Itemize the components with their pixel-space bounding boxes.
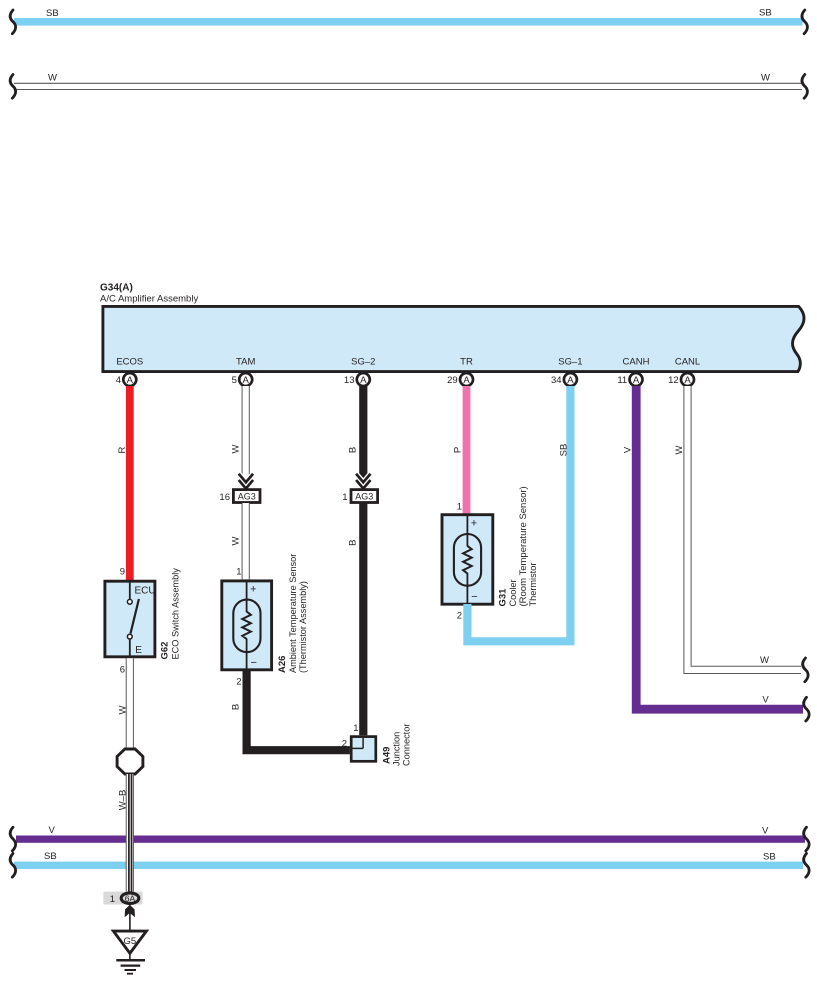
- svg-text:A: A: [463, 375, 470, 386]
- svg-text:B: B: [348, 540, 359, 546]
- ground symbol: [116, 953, 145, 973]
- wire SB top bus: [14, 8, 803, 26]
- svg-text:1: 1: [457, 502, 462, 513]
- svg-text:+: +: [471, 517, 477, 529]
- ground lead wire: [129, 905, 131, 930]
- wire W-B (octagon to ground connector 6A, crosses over buses): [129, 774, 132, 892]
- svg-text:A: A: [360, 375, 367, 386]
- connector pin 12 (A) CANL: [668, 373, 694, 386]
- svg-text:2: 2: [236, 677, 241, 688]
- wire W (AG3 to A26 pin 1): [231, 503, 246, 579]
- svg-text:G31: G31: [498, 588, 509, 607]
- junction connector AG3 (pin 16): [219, 490, 260, 503]
- svg-text:W: W: [760, 655, 769, 666]
- junction connector AG3 (pin 1): [342, 490, 377, 503]
- wire W (TAM pin 5 down to AG3): [231, 386, 246, 476]
- break symbol left (SB bottom bus): [10, 853, 15, 877]
- svg-text:5: 5: [232, 375, 237, 386]
- wire V (CANH pin 11 to right edge): [623, 386, 804, 709]
- svg-text:A: A: [243, 375, 250, 386]
- svg-text:9: 9: [120, 567, 125, 578]
- svg-text:W: W: [761, 73, 770, 84]
- svg-text:W: W: [118, 705, 129, 714]
- svg-text:W: W: [231, 536, 242, 545]
- svg-text:TR: TR: [460, 357, 473, 368]
- break symbol right (wire V CANH): [804, 697, 809, 721]
- svg-text:ECOS: ECOS: [116, 357, 143, 368]
- svg-text:A/C Amplifier Assembly: A/C Amplifier Assembly: [100, 294, 198, 305]
- svg-text:V: V: [762, 695, 769, 706]
- connector pin 13 (A) SG-2: [344, 373, 370, 386]
- svg-text:A: A: [633, 375, 640, 386]
- wire B (AG3 to A49 pin 1): [348, 503, 364, 735]
- wire P (TR pin 29 to G31 pin 1): [453, 386, 471, 514]
- svg-text:W: W: [231, 444, 242, 453]
- svg-text:SB: SB: [559, 444, 570, 457]
- svg-text:16: 16: [219, 492, 230, 503]
- junction connector box A49: [351, 737, 376, 762]
- svg-text:TAM: TAM: [236, 357, 255, 368]
- ground point triangle G5: [113, 931, 146, 953]
- svg-text:1: 1: [342, 492, 347, 503]
- svg-text:R: R: [117, 446, 128, 453]
- svg-text:Ambient Temperature Sensor: Ambient Temperature Sensor: [288, 554, 298, 673]
- connector pin 34 (A) SG-1: [551, 373, 577, 386]
- ECO switch assembly box G62: [105, 581, 155, 657]
- svg-text:A: A: [127, 375, 134, 386]
- svg-text:SB: SB: [44, 851, 57, 862]
- svg-text:SB: SB: [759, 8, 772, 19]
- svg-text:A26: A26: [277, 656, 288, 673]
- wire W top bus: [14, 73, 802, 90]
- break symbol left (W top bus): [10, 75, 15, 99]
- ambient temperature sensor box A26: [222, 581, 272, 670]
- svg-text:ECO Switch Assembly: ECO Switch Assembly: [171, 568, 181, 660]
- svg-text:1: 1: [353, 723, 358, 734]
- svg-text:SG–1: SG–1: [558, 357, 582, 368]
- break symbol right (SB bottom bus): [804, 853, 809, 877]
- svg-text:B: B: [231, 704, 242, 710]
- svg-text:AG3: AG3: [238, 492, 256, 502]
- switch symbol inside G62: [127, 580, 138, 658]
- svg-text:G34(A): G34(A): [100, 283, 133, 294]
- svg-text:1: 1: [110, 894, 115, 905]
- svg-text:−: −: [251, 657, 257, 669]
- connector pin 5 (A) TAM: [232, 373, 253, 386]
- svg-text:SG–2: SG–2: [351, 357, 375, 368]
- svg-text:V: V: [623, 446, 634, 453]
- svg-text:P: P: [453, 447, 464, 453]
- svg-text:+: +: [250, 584, 256, 596]
- svg-text:W: W: [48, 73, 57, 84]
- svg-text:CANL: CANL: [675, 357, 700, 368]
- thermistor symbol inside A26: [233, 580, 260, 671]
- svg-text:V: V: [762, 826, 769, 837]
- svg-text:CANH: CANH: [623, 357, 650, 368]
- svg-text:B: B: [348, 447, 359, 453]
- wire W (CANL pin 12 to right edge): [674, 386, 801, 670]
- svg-text:Connector: Connector: [402, 724, 412, 766]
- break symbol left (SB top bus): [10, 10, 15, 34]
- svg-text:E: E: [135, 645, 142, 656]
- wire W (G62 pin 6 to octagon splice): [118, 658, 130, 749]
- svg-text:A: A: [684, 375, 691, 386]
- svg-text:−: −: [471, 591, 477, 603]
- svg-text:ECU: ECU: [135, 585, 156, 596]
- A/C amplifier assembly G34(A) name label: [100, 283, 198, 305]
- svg-text:12: 12: [668, 375, 679, 386]
- svg-text:SB: SB: [46, 8, 59, 19]
- wire SB bottom bus: [14, 851, 803, 869]
- svg-text:SB: SB: [763, 852, 776, 863]
- ground arrow: [125, 905, 135, 917]
- svg-text:(Thermistor Assembly): (Thermistor Assembly): [298, 581, 308, 673]
- wire R (ECOS to G62 pin 9): [117, 386, 134, 581]
- connector pin 29 (A) TR: [447, 373, 473, 386]
- connector pin 4 (A) ECOS: [116, 373, 137, 386]
- connector pin 11 (A) CANH: [617, 373, 642, 386]
- svg-text:Cooler: Cooler: [508, 579, 518, 606]
- svg-text:2: 2: [457, 611, 462, 622]
- svg-text:4: 4: [116, 375, 121, 386]
- svg-text:G5: G5: [124, 936, 137, 947]
- svg-text:W: W: [674, 445, 685, 454]
- ground connector highlight: [103, 892, 142, 905]
- svg-text:AG3: AG3: [355, 492, 373, 502]
- ground connector 6A oval: [121, 893, 139, 904]
- A/C amplifier assembly box G34: [103, 306, 804, 371]
- inline connector arrows (SG-2 into AG3): [356, 474, 370, 489]
- inline connector arrows (TAM into AG3): [239, 474, 253, 489]
- thermistor symbol inside G31: [454, 514, 481, 605]
- break symbol left (V bottom bus): [10, 827, 15, 851]
- svg-text:Thermistor: Thermistor: [528, 563, 538, 607]
- wire SB (G31 pin 2 to SG-1 pin 34): [467, 386, 570, 641]
- break symbol right (V bottom bus): [804, 827, 809, 851]
- svg-text:A: A: [567, 375, 574, 386]
- svg-text:34: 34: [551, 375, 562, 386]
- octagon splice connector: [117, 749, 143, 774]
- svg-text:1: 1: [236, 567, 241, 578]
- svg-text:29: 29: [447, 375, 458, 386]
- room temperature sensor box G31: [442, 515, 493, 605]
- break symbol right (wire W CANL): [803, 658, 808, 682]
- wire V bottom bus: [16, 825, 805, 843]
- break symbol right (W top bus): [802, 75, 807, 99]
- svg-text:13: 13: [344, 375, 355, 386]
- wire B (A26 pin 2 to A49 pin 2): [231, 670, 350, 750]
- svg-text:2: 2: [342, 739, 347, 750]
- svg-text:G62: G62: [160, 642, 171, 660]
- break symbol right (SB top bus): [802, 10, 807, 34]
- svg-text:11: 11: [617, 375, 627, 386]
- wire B (SG-2 pin 13 down to AG3): [348, 386, 364, 490]
- svg-text:6: 6: [120, 665, 125, 676]
- svg-text:Junction: Junction: [392, 732, 402, 766]
- svg-text:6A: 6A: [125, 893, 136, 903]
- svg-text:V: V: [49, 825, 56, 836]
